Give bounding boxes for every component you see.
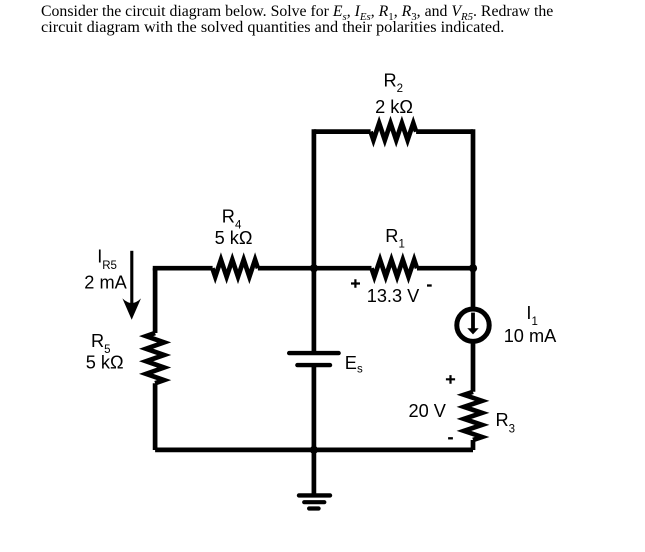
current arrow IR5 shaft	[130, 251, 133, 308]
svg-text:5 kΩ: 5 kΩ	[215, 228, 253, 248]
wire middle rail left segment	[155, 268, 213, 270]
wire top rail right segment	[416, 129, 473, 134]
battery Es bottom plate	[297, 363, 330, 367]
svg-text:2 kΩ: 2 kΩ	[375, 97, 413, 117]
svg-text:R3: R3	[496, 410, 516, 436]
current source I1 arrowhead	[467, 328, 478, 334]
resistor R3	[464, 392, 482, 440]
junction bottom-ground dot	[310, 446, 318, 454]
svg-text:Es: Es	[345, 353, 363, 376]
polarity plus of R1	[351, 279, 360, 287]
resistor R2	[371, 123, 417, 140]
svg-text:20 V: 20 V	[409, 401, 447, 421]
polarity minus of R3	[448, 437, 453, 439]
svg-text:10 mA: 10 mA	[504, 326, 557, 346]
wire left vertical lower (R5 to bottom rail)	[153, 383, 158, 450]
wire node C to current source	[471, 267, 476, 309]
svg-text:R2: R2	[384, 70, 404, 95]
junction node B dot	[310, 264, 318, 272]
wire bottom rail	[155, 448, 473, 453]
svg-text:13.3 V: 13.3 V	[367, 286, 420, 306]
wire middle-branch vertical upper (node B to top)	[312, 129, 317, 268]
svg-text:R1: R1	[385, 226, 405, 251]
svg-text:IR5: IR5	[97, 247, 117, 272]
wire middle-branch vertical (node B to battery)	[312, 267, 317, 353]
polarity plus of R3	[446, 375, 455, 384]
resistor R1	[372, 260, 418, 277]
battery Es top plate	[289, 351, 338, 355]
ground symbol bar 2	[304, 500, 324, 504]
current source I1 arrow shaft	[471, 313, 475, 329]
svg-text:2 mA: 2 mA	[84, 273, 127, 293]
wire top rail left segment	[314, 129, 371, 134]
current arrow IR5 head	[122, 298, 141, 319]
polarity minus of R1	[427, 284, 432, 286]
ground symbol bar 3	[309, 506, 319, 510]
svg-text:I1: I1	[526, 303, 537, 328]
svg-text:5 kΩ: 5 kΩ	[86, 353, 124, 373]
resistor R5	[146, 333, 164, 383]
wire battery to bottom rail	[312, 365, 317, 450]
junction node C dot	[469, 264, 477, 272]
resistor R4	[212, 260, 258, 277]
wire bottom rail to ground stub	[312, 449, 317, 496]
wire middle rail right segment	[417, 266, 473, 271]
wire left vertical upper (node A to R5)	[153, 268, 158, 333]
wire R3 to bottom rail	[471, 440, 476, 450]
current source I1 circle	[457, 309, 489, 341]
wire current source to R3	[471, 342, 476, 392]
wire right vertical upper (top rail to node C)	[471, 129, 476, 268]
ground symbol bar 1	[299, 493, 330, 497]
wire middle rail center segment	[258, 266, 372, 271]
